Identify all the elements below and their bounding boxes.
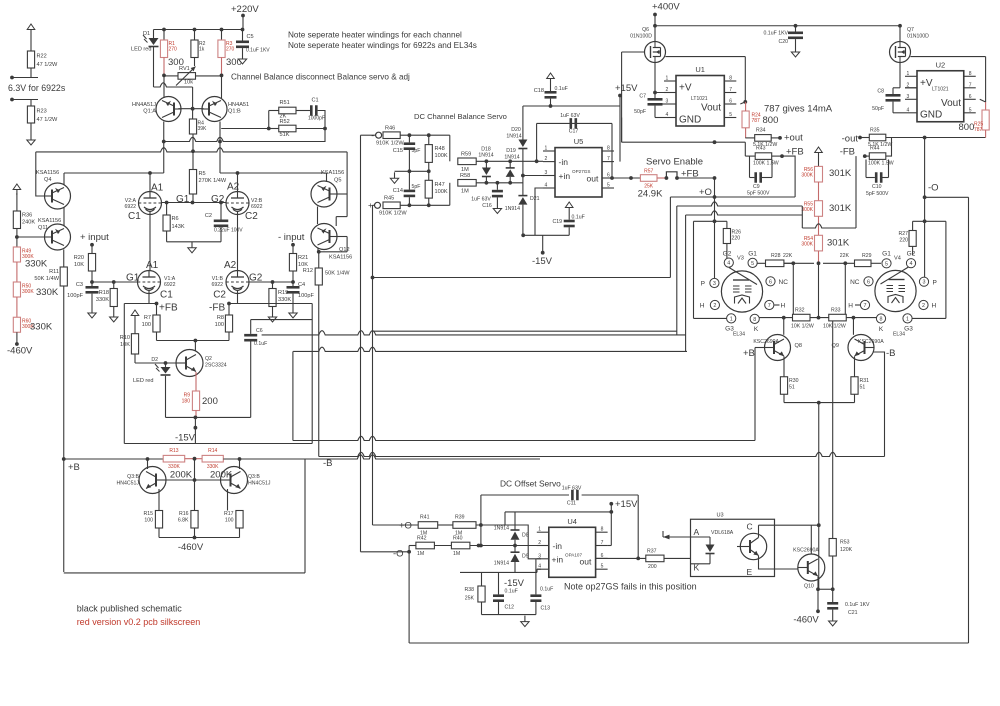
- wire D2 top: [165, 363, 167, 367]
- svg-text:24.9K: 24.9K: [638, 189, 663, 200]
- node C link: [817, 523, 821, 527]
- wire +220V: [242, 16, 244, 30]
- svg-text:R21: R21: [298, 255, 308, 261]
- svg-text:R22: R22: [37, 54, 47, 60]
- wire top rail: [154, 29, 244, 31]
- svg-text:G1: G1: [748, 251, 757, 258]
- svg-text:V4: V4: [894, 256, 901, 262]
- resistor R58: [458, 180, 476, 187]
- svg-text:100K: 100K: [435, 153, 448, 159]
- wire -FB elbow riser: [801, 206, 803, 228]
- node line1 Q1B: [218, 140, 222, 144]
- wire C8 col top: [892, 88, 894, 94]
- connector -O servo: [371, 130, 381, 140]
- svg-text:Q3:B: Q3:B: [127, 474, 139, 480]
- resistor R52: [279, 125, 296, 132]
- svg-text:R20: R20: [74, 255, 84, 261]
- wire G2 row left: [694, 220, 727, 222]
- wire: [434, 545, 451, 547]
- wire: [762, 177, 772, 179]
- svg-text:25K: 25K: [465, 596, 475, 602]
- wire pin4 link: [536, 569, 538, 572]
- svg-text:KSA1156: KSA1156: [38, 218, 61, 224]
- svg-text:100K 1.5W: 100K 1.5W: [753, 161, 779, 167]
- wire gnd pin link: [655, 117, 664, 119]
- wire: [272, 282, 274, 289]
- wire R7 bottom: [156, 332, 158, 341]
- wire C12 bottom: [498, 602, 500, 615]
- resistor R8: [225, 315, 232, 332]
- wire R27 row: [913, 220, 946, 222]
- pin 1 V4: [903, 314, 912, 323]
- svg-text:C19: C19: [552, 219, 562, 225]
- svg-text:C2: C2: [213, 290, 226, 301]
- svg-text:C8: C8: [877, 89, 884, 95]
- diode D19: [506, 168, 515, 177]
- node -input: [291, 243, 295, 247]
- svg-text:910K 1/2W: 910K 1/2W: [379, 211, 407, 217]
- svg-text:Note seperate heater windings: Note seperate heater windings for each c…: [288, 31, 462, 40]
- wire: [292, 294, 294, 307]
- svg-text:-B: -B: [886, 348, 896, 359]
- wire Q7 source: [899, 63, 901, 88]
- wire: [823, 262, 855, 264]
- opto transistor U3: [737, 533, 767, 559]
- wire R5 bottom: [192, 194, 194, 203]
- svg-text:R23: R23: [37, 109, 47, 115]
- node -O a: [923, 195, 927, 199]
- wire R55-R54: [818, 216, 820, 235]
- wire R48 top: [428, 135, 430, 144]
- arrow up C19: [565, 202, 573, 213]
- wire grid V1B: [249, 281, 293, 283]
- resistor R47: [425, 180, 432, 198]
- node R4 line2: [191, 149, 195, 153]
- svg-text:C2: C2: [205, 213, 212, 219]
- resistor R13: [163, 455, 185, 462]
- wire: [30, 68, 32, 78]
- node R30 R31: [817, 401, 821, 405]
- wire line2 to Q4 base: [36, 152, 45, 196]
- wire R57 right: [657, 177, 666, 179]
- wire opto E: [759, 556, 798, 570]
- svg-text:G1: G1: [176, 194, 190, 205]
- svg-text:black published schematic: black published schematic: [77, 604, 183, 614]
- wire: [744, 57, 746, 102]
- wire C2 bottom: [220, 227, 222, 242]
- svg-text:100: 100: [144, 518, 153, 524]
- svg-text:5: 5: [969, 107, 972, 113]
- resistor R59: [458, 158, 476, 165]
- wire: [945, 221, 947, 318]
- svg-text:D9: D9: [522, 554, 529, 560]
- wire R3 bottom: [221, 58, 223, 76]
- node D18 bottom: [485, 181, 489, 185]
- svg-text:143K: 143K: [172, 224, 185, 230]
- resistor R37: [646, 555, 664, 562]
- wire R60 bottom: [16, 332, 18, 344]
- svg-text:1M: 1M: [417, 551, 424, 557]
- svg-text:C14: C14: [393, 188, 403, 194]
- svg-text:8: 8: [607, 146, 610, 152]
- wire +FB long: [677, 177, 715, 179]
- wire C10 right: [888, 160, 890, 178]
- wire Q12 collector drop: [335, 217, 337, 226]
- wire R5 top: [192, 152, 194, 170]
- svg-text:R57: R57: [644, 169, 653, 175]
- svg-text:+O: +O: [399, 521, 412, 532]
- node C18: [549, 104, 553, 108]
- svg-text:6922: 6922: [164, 282, 176, 288]
- wire V1A cathode: [148, 294, 150, 304]
- svg-text:HN4C51J: HN4C51J: [117, 481, 140, 487]
- node C11 -in row: [479, 544, 483, 548]
- svg-text:DC Offset Servo: DC Offset Servo: [500, 479, 561, 489]
- wire K row U3: [691, 563, 711, 565]
- resistor R22: [27, 51, 34, 68]
- resistor R26: [723, 229, 730, 244]
- capacitor C2: [214, 220, 229, 228]
- wire Q8 collector: [755, 347, 765, 349]
- wire D2 bottom: [165, 376, 167, 418]
- wire R24 top: [745, 102, 747, 111]
- node D19 top: [508, 159, 512, 163]
- ground below R19: [268, 311, 276, 322]
- wire C21 stub: [832, 589, 834, 602]
- wire +FB to P: [714, 178, 716, 278]
- svg-text:47 1/2W: 47 1/2W: [37, 62, 59, 68]
- svg-text:1k: 1k: [199, 47, 205, 53]
- svg-text:330K: 330K: [278, 297, 291, 303]
- wire: [485, 177, 487, 183]
- svg-text:10k: 10k: [184, 80, 193, 86]
- resistor R33: [829, 314, 847, 321]
- wire +FB: [124, 303, 156, 305]
- node Vout link: [743, 100, 747, 104]
- node P feed: [713, 219, 717, 223]
- wire -460V row: [159, 537, 240, 539]
- wire R52 right: [296, 128, 325, 130]
- resistor R57: [640, 175, 657, 182]
- wire R16 bottom: [194, 528, 196, 538]
- capacitor C10: [875, 172, 883, 183]
- wire Q4 emitter: [63, 173, 65, 185]
- wire Q1B collector: [219, 122, 221, 174]
- node line1 Q1A: [162, 140, 166, 144]
- svg-text:-FB: -FB: [209, 303, 225, 314]
- transistor Q1:A: [156, 97, 181, 122]
- wire Q10 collector: [810, 525, 812, 554]
- node -out: [858, 136, 862, 140]
- node R5 grid: [191, 201, 195, 205]
- node rail R3: [220, 28, 224, 32]
- svg-text:R34: R34: [756, 128, 766, 134]
- tube V2:B 6922: [226, 192, 249, 215]
- wire R51 C1: [296, 110, 310, 112]
- svg-text:Q1:B: Q1:B: [228, 109, 241, 115]
- capacitor C15: [404, 142, 416, 150]
- svg-text:R59: R59: [461, 152, 471, 158]
- optocoupler U3 box: [691, 519, 775, 576]
- wire R15 bottom: [158, 528, 160, 538]
- capacitor C20: [788, 32, 803, 40]
- wire Q10 emitter: [817, 577, 819, 590]
- wire +B rail b: [223, 455, 540, 459]
- svg-text:U1: U1: [695, 65, 705, 74]
- resistor R38: [478, 586, 485, 602]
- svg-text:7: 7: [607, 156, 610, 162]
- wire +O vert: [372, 205, 374, 525]
- svg-text:+in: +in: [559, 171, 571, 181]
- svg-text:7: 7: [969, 82, 972, 88]
- wire R7 top: [156, 304, 158, 316]
- wire +400V: [654, 15, 656, 42]
- wire Q12 base: [337, 236, 347, 238]
- svg-text:1N914: 1N914: [506, 134, 521, 140]
- wire: [361, 551, 410, 553]
- svg-text:6: 6: [769, 279, 772, 285]
- wire D8 col: [514, 512, 516, 530]
- capacitor C13: [530, 594, 541, 602]
- wire Q5-Q12: [317, 207, 319, 225]
- svg-text:+FB: +FB: [159, 303, 178, 314]
- node 6.3V A: [10, 76, 14, 80]
- node +B: [62, 457, 66, 461]
- node Q2 collector: [194, 339, 198, 343]
- svg-text:330K: 330K: [25, 259, 48, 270]
- arrow up C18: [547, 73, 555, 84]
- wire U1 gnd row: [622, 141, 746, 143]
- wire R1 bottom: [163, 58, 165, 76]
- svg-text:U4: U4: [567, 517, 577, 526]
- wire bus B drop: [292, 351, 294, 440]
- svg-text:Vout: Vout: [701, 103, 721, 114]
- resistor R45: [383, 202, 400, 209]
- transistor Q2: [176, 350, 203, 377]
- wire +FB to plate: [782, 156, 795, 197]
- wire R11 bottom long: [63, 286, 65, 572]
- svg-text:Channel Balance disconnect Bal: Channel Balance disconnect Balance servo…: [231, 73, 410, 82]
- tube V1:B 6922: [226, 271, 249, 294]
- wire R3 top: [221, 30, 223, 41]
- node Q3R collector: [238, 457, 242, 461]
- wire Q2 box bottom: [166, 416, 251, 418]
- svg-text:C20: C20: [778, 39, 788, 45]
- wire Q5 base col: [346, 152, 348, 217]
- node R6 grid: [165, 201, 169, 205]
- node out C17: [610, 176, 614, 180]
- capacitor C8: [886, 94, 901, 102]
- node gnd servo: [408, 169, 412, 173]
- svg-text:2: 2: [713, 303, 716, 309]
- capacitor C4: [287, 286, 300, 294]
- node Q8 base: [782, 316, 786, 320]
- ground C16: [493, 203, 501, 214]
- svg-text:300K: 300K: [801, 207, 813, 213]
- svg-text:10K 1/2W: 10K 1/2W: [823, 324, 846, 330]
- svg-text:A: A: [694, 527, 700, 537]
- wire R24 bottom: [745, 128, 747, 138]
- svg-text:787: 787: [752, 118, 761, 124]
- wire C9 right: [771, 160, 773, 178]
- wire emitter row: [818, 588, 833, 590]
- svg-text:D8: D8: [522, 533, 529, 539]
- svg-text:0.1uF: 0.1uF: [254, 341, 267, 347]
- svg-text:R38: R38: [464, 587, 474, 593]
- diode D18: [482, 168, 491, 177]
- svg-text:+ input: + input: [80, 232, 109, 243]
- node R48 top: [427, 133, 431, 137]
- wire C13 bottom: [535, 602, 537, 615]
- node rail Q7: [898, 24, 902, 28]
- svg-text:2: 2: [922, 303, 925, 309]
- svg-text:-O: -O: [393, 549, 404, 560]
- wire R4 top: [192, 109, 194, 119]
- svg-text:-460V: -460V: [793, 615, 819, 626]
- resistor R50: [13, 282, 20, 297]
- svg-text:R11: R11: [49, 269, 59, 275]
- svg-text:VDL618A: VDL618A: [711, 530, 734, 536]
- node +FB x: [713, 140, 717, 144]
- node +FB junction: [713, 176, 717, 180]
- node +V C7: [653, 91, 657, 95]
- svg-text:6: 6: [607, 173, 610, 179]
- wire C row: [759, 524, 820, 526]
- wire R35 right: [886, 137, 986, 139]
- node C2 grid: [219, 201, 223, 205]
- svg-text:R52: R52: [280, 119, 290, 125]
- wire Q6 gate drop: [621, 52, 623, 142]
- transistor Q5: [311, 181, 337, 207]
- svg-text:0.1uF 1KV: 0.1uF 1KV: [246, 48, 270, 54]
- node jumper right: [675, 176, 679, 180]
- svg-text:10K: 10K: [120, 342, 130, 348]
- svg-text:KSA1156: KSA1156: [321, 170, 344, 176]
- svg-text:Q4: Q4: [44, 177, 51, 183]
- svg-text:R41: R41: [420, 515, 430, 521]
- svg-text:R17: R17: [224, 511, 234, 517]
- svg-text:H: H: [781, 303, 786, 310]
- wire C19 bottom: [568, 227, 570, 235]
- svg-text:-out: -out: [842, 134, 859, 145]
- svg-text:1N914: 1N914: [494, 526, 509, 532]
- wire R56 top: [818, 158, 820, 166]
- svg-text:EL34: EL34: [893, 332, 905, 338]
- resistor R25: [982, 110, 989, 130]
- svg-text:8: 8: [880, 317, 883, 323]
- node C17 tap: [535, 159, 539, 163]
- wire R36 bottom: [16, 229, 18, 248]
- wire D20 col top: [522, 106, 524, 140]
- svg-text:0.1uF: 0.1uF: [572, 215, 585, 221]
- wire C5 top: [242, 30, 244, 41]
- svg-text:RV1: RV1: [179, 66, 190, 72]
- mosfet Q7: [890, 42, 911, 63]
- pin 6 V4: [864, 277, 873, 286]
- wire: [373, 524, 419, 526]
- svg-text:R43: R43: [756, 146, 766, 152]
- svg-text:100: 100: [215, 322, 224, 328]
- wire C17 left: [536, 123, 538, 161]
- svg-text:22K: 22K: [840, 253, 850, 259]
- svg-text:K: K: [879, 326, 884, 333]
- node +FB right: [780, 154, 784, 158]
- wire plate B: [220, 172, 327, 174]
- svg-text:1: 1: [538, 527, 541, 533]
- wire R10 bottom: [134, 354, 136, 363]
- wire V2A plate: [149, 173, 151, 192]
- wire R34 right: [771, 137, 780, 139]
- transistor Q1:B: [202, 97, 227, 122]
- wire: [509, 161, 511, 168]
- node +in clamp: [521, 174, 525, 178]
- svg-text:R18: R18: [99, 290, 109, 296]
- node plate A: [148, 171, 152, 175]
- wire: [509, 177, 511, 183]
- resistor R2: [191, 40, 198, 58]
- svg-text:330K: 330K: [36, 287, 59, 298]
- svg-text:R48: R48: [435, 146, 445, 152]
- svg-text:R37: R37: [647, 549, 657, 555]
- wire Q6 top link: [666, 56, 746, 58]
- wire U1 gnd drop: [621, 118, 623, 143]
- wire: [871, 262, 881, 264]
- wire C14 bottom: [408, 197, 410, 205]
- wire base drop: [194, 459, 196, 480]
- wire: [866, 177, 875, 179]
- wire +15V drop: [619, 96, 621, 162]
- wire L1 line: [373, 330, 676, 332]
- node rail R1: [162, 28, 166, 32]
- pin 2 V3: [710, 300, 719, 309]
- wire: [292, 282, 294, 286]
- svg-text:0.1uF: 0.1uF: [555, 86, 568, 92]
- wire R56-R55: [818, 182, 820, 201]
- wire RV1 left: [164, 75, 178, 77]
- pin 4 V4: [906, 259, 915, 268]
- wire C15 bottom: [408, 150, 410, 171]
- wire R27 top: [912, 221, 914, 230]
- svg-text:KSA1156: KSA1156: [36, 170, 59, 176]
- wire R48 bottom: [428, 162, 430, 171]
- wire R2 bottom: [194, 58, 196, 67]
- capacitor C21: [827, 602, 838, 610]
- wire -O drop: [408, 552, 410, 643]
- wire D21 bottom: [522, 205, 524, 236]
- wire gnd row offset: [482, 614, 536, 616]
- svg-text:D20: D20: [511, 127, 521, 133]
- node rail Q6: [653, 24, 657, 28]
- wire Q9 base drop: [852, 318, 854, 335]
- resistor R56: [815, 166, 823, 182]
- wire grid V1A: [92, 281, 138, 283]
- node -O offset: [407, 550, 411, 554]
- wire Q11 collector: [63, 250, 65, 268]
- svg-text:6: 6: [867, 279, 870, 285]
- wire R38 bottom: [481, 602, 483, 615]
- wire R30 bottom: [783, 394, 785, 402]
- wire C9 left: [749, 156, 751, 177]
- svg-text:E: E: [747, 567, 753, 577]
- svg-text:R42: R42: [417, 536, 427, 542]
- wire: [817, 589, 819, 611]
- node 6.3V B: [10, 98, 14, 102]
- wire: [485, 161, 487, 167]
- wire: [860, 137, 869, 139]
- resistor R39: [453, 522, 476, 529]
- wire R4 bottom: [192, 134, 194, 151]
- pot RV1 arrow: [176, 67, 196, 86]
